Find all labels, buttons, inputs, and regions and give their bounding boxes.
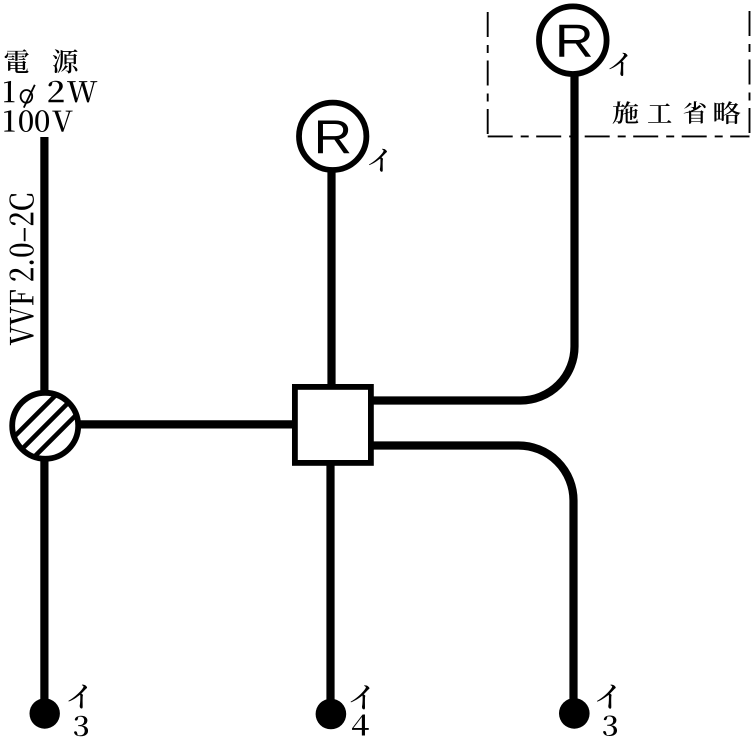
3-way switch dot (left) [30, 698, 60, 728]
label 3 at left switch [74, 716, 88, 736]
label 1φ2W: 1 [4, 81, 14, 102]
label 1φ2W: W [67, 81, 97, 102]
wire: center lamp R down to outlet box [327, 165, 335, 400]
label 1φ2W: φ [21, 85, 35, 108]
dashed boundary, bottom edge [488, 135, 750, 137]
label 施工省略: 省 [684, 101, 706, 123]
label イ at center switch [351, 685, 370, 709]
label 源 (power source) [53, 49, 78, 73]
3-way switch dot (right) [559, 698, 590, 729]
wire: power feed down to joint box [40, 137, 48, 400]
dashed boundary of omitted-work area, left edge [487, 12, 489, 136]
wire: outlet box to lower-right 3-way switch, curved [372, 446, 574, 714]
dashed boundary, right edge [749, 11, 751, 136]
label イ at center lamp [369, 149, 387, 172]
wire: outlet box to upper-right lamp R, curved [372, 70, 575, 401]
label 100V: 0 [35, 110, 49, 132]
lamp receptacle circle (top right) [539, 6, 607, 74]
label イ at left switch [68, 685, 87, 709]
label 1φ2W: 2 [48, 81, 63, 102]
label 電 (power source) [5, 49, 29, 73]
VVF joint box (hatched circle) [7, 388, 84, 465]
letter R in right lamp [559, 25, 591, 57]
label イ at right lamp [609, 53, 627, 76]
label 施工省略: 略 [714, 101, 740, 124]
label 100V: 0 [19, 110, 33, 132]
wire: joint box down to 3-way switch (left) [40, 450, 48, 714]
outlet box (square) [295, 387, 371, 463]
label 100V: 1 [4, 110, 14, 131]
label VVF 2.0-2C (cable type), rotated [9, 194, 34, 345]
label 100V: V [52, 111, 72, 132]
wire: outlet box down to 4-way switch [326, 455, 334, 714]
wire: joint box to outlet box [45, 420, 330, 428]
4-way switch dot (center) [316, 699, 347, 730]
label イ at right switch [597, 685, 616, 709]
label 施工省略: 施 [613, 101, 639, 124]
label 3 at right switch [603, 716, 617, 736]
label 施工省略: 工 [648, 103, 671, 122]
lamp receptacle circle (top center) [299, 103, 366, 170]
label 4 at center switch [352, 714, 369, 735]
letter R in center lamp [318, 120, 350, 153]
